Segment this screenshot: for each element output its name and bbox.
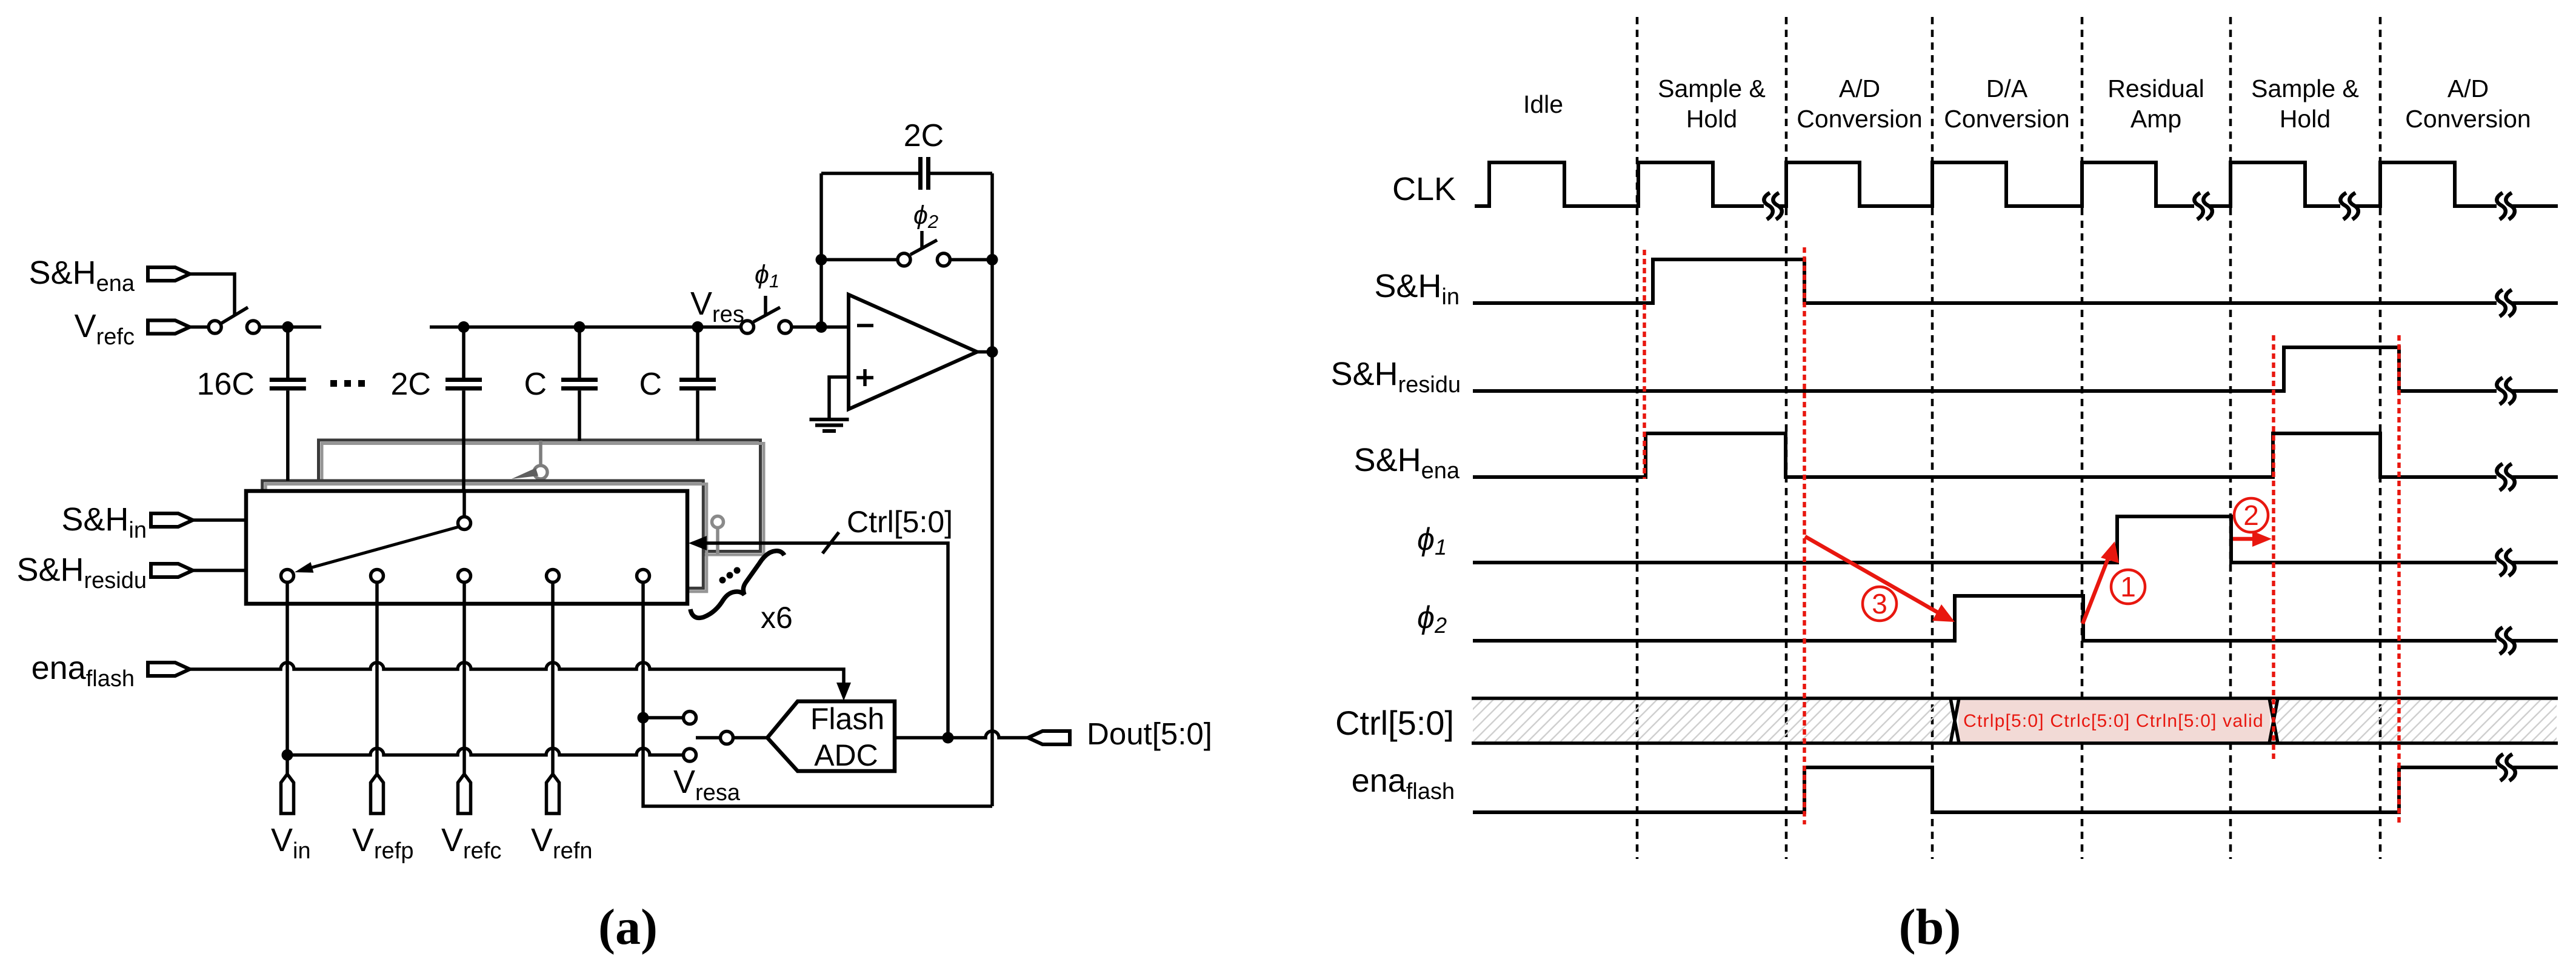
svg-text:1: 1 bbox=[2120, 571, 2136, 603]
wire: V_refc column bbox=[462, 602, 466, 774]
Ctrl X transition 2 bbox=[2269, 698, 2278, 743]
Ctrl bus hatched band bbox=[1473, 700, 1952, 741]
far replica selector pivot bbox=[512, 441, 547, 479]
red arrow 1 bbox=[2083, 541, 2119, 624]
wire: lower rail V_in to SPDT with hops bbox=[287, 749, 683, 755]
svg-text:Ctrl[5:0]: Ctrl[5:0] bbox=[847, 505, 953, 539]
bus slash Ctrl bbox=[823, 532, 839, 553]
red arrow 2 bbox=[2233, 531, 2272, 547]
x6 brace bbox=[690, 551, 784, 618]
mux replica box (far, x6 stack back) bbox=[319, 440, 764, 555]
wire: V_refn column bbox=[551, 602, 555, 774]
port V_in bbox=[281, 774, 294, 813]
wire op-amp output bbox=[977, 350, 992, 354]
wire SPDT common to Flash ADC bbox=[733, 736, 768, 740]
node: dot feedback right on phi2 row bbox=[987, 254, 998, 266]
capacitor C2 bbox=[679, 327, 716, 441]
svg-text:Conversion: Conversion bbox=[1944, 105, 2069, 133]
switch SPDT flash input bbox=[684, 712, 733, 762]
red circled 2 bbox=[2234, 498, 2268, 532]
wire: top rail segment B bbox=[430, 326, 741, 329]
svg-text:CLK: CLK bbox=[1392, 171, 1456, 207]
svg-text:2: 2 bbox=[2243, 499, 2259, 531]
node: junction dot C2 bbox=[692, 321, 704, 333]
Ctrl arrowhead into box bbox=[689, 536, 707, 550]
svg-text:Conversion: Conversion bbox=[1797, 105, 1922, 133]
red circled 1 bbox=[2111, 570, 2145, 604]
selector pivot bbox=[458, 491, 471, 530]
switch S1 (S&Hena controlled) bbox=[209, 307, 259, 333]
ena_flash arrowhead into Flash ADC bbox=[836, 683, 851, 701]
Ctrl X transition 1 bbox=[1950, 698, 1959, 743]
wire Ctrl feedback bbox=[706, 543, 948, 738]
wire: V_in column bbox=[285, 602, 289, 774]
svg-text:C: C bbox=[524, 367, 547, 402]
wire: feedback right vertical (to Vresa loop) bbox=[990, 173, 994, 806]
port V_refn bbox=[547, 774, 559, 813]
svg-text:Dout[5:0]: Dout[5:0] bbox=[1087, 716, 1212, 751]
svg-text:Conversion: Conversion bbox=[2405, 105, 2531, 133]
svg-text:2C: 2C bbox=[904, 118, 944, 153]
svg-text:A/D: A/D bbox=[2448, 75, 2489, 102]
svg-text:3: 3 bbox=[1872, 588, 1887, 620]
signal CLK waveform bbox=[1475, 162, 2558, 206]
wire op-amp plus input bbox=[829, 377, 849, 418]
signal ena_flash waveform bbox=[1473, 767, 2558, 812]
mux selector box U2 (front) bbox=[246, 491, 687, 604]
signal S&Hresidu waveform bbox=[1473, 347, 2558, 391]
capacitor 2C bbox=[445, 327, 482, 492]
CLK breaks bbox=[1764, 193, 1781, 219]
svg-text:Ctrlp[5:0] Ctrlc[5:0] Ctrln[5:: Ctrlp[5:0] Ctrlc[5:0] Ctrln[5:0] valid bbox=[1963, 711, 2264, 731]
Flash ADC block bbox=[767, 701, 895, 771]
port Dout bbox=[1028, 731, 1070, 744]
svg-text:x6: x6 bbox=[761, 601, 793, 635]
Ctrl band rails bbox=[1472, 698, 2558, 743]
svg-text:(b): (b) bbox=[1899, 899, 1961, 955]
phase boundary dashed lines bbox=[1637, 17, 2380, 859]
op-amp U1 bbox=[849, 295, 977, 409]
port S&Hin bbox=[151, 513, 193, 527]
svg-text:16C: 16C bbox=[197, 367, 255, 402]
wire S&Hresidu to box bbox=[193, 569, 246, 572]
port V_refp bbox=[371, 774, 384, 813]
svg-text:Sample &: Sample & bbox=[1658, 75, 1766, 102]
capacitor C1 bbox=[561, 327, 598, 441]
port S&Hresidu bbox=[151, 564, 193, 577]
wire S&Hin to box bbox=[193, 518, 246, 522]
svg-text:(a): (a) bbox=[598, 899, 658, 955]
svg-text:Hold: Hold bbox=[1686, 105, 1737, 133]
svg-text:Idle: Idle bbox=[1523, 90, 1563, 118]
red circled 3 bbox=[1863, 587, 1897, 621]
contact circles row inside box bbox=[281, 570, 650, 583]
selector blade with arrowhead bbox=[295, 527, 459, 573]
node: dot SPDT upper throw bbox=[638, 712, 649, 724]
wire: Vresa vertical up through hops to box bbox=[641, 602, 645, 712]
red marker line R3 bbox=[2272, 335, 2275, 763]
svg-text:Hold: Hold bbox=[2280, 105, 2331, 133]
svg-text:2C: 2C bbox=[391, 367, 431, 402]
red marker line R4 bbox=[2397, 335, 2401, 824]
mux replica box (middle of x6 stack) bbox=[262, 481, 707, 592]
signal S&Hena waveform bbox=[1473, 433, 2558, 477]
wire ena_flash with hops bbox=[190, 663, 844, 695]
switch phi1 bbox=[741, 296, 792, 333]
wire: top rail segment A bbox=[260, 326, 322, 329]
ground bbox=[810, 419, 849, 431]
signal S&Hin waveform bbox=[1473, 259, 2558, 303]
op-amp plus sign bbox=[856, 369, 873, 386]
wire: V_refp column bbox=[375, 602, 379, 774]
node: junction dot C1 bbox=[574, 321, 586, 333]
capacitor 16C bbox=[270, 327, 306, 481]
svg-text:Ctrl[5:0]: Ctrl[5:0] bbox=[1335, 704, 1454, 742]
Ctrl valid region pink bbox=[1958, 700, 2270, 741]
red arrow 3 bbox=[1805, 536, 1955, 622]
svg-text:Amp: Amp bbox=[2131, 105, 2181, 133]
wire: feedback left vertical bbox=[819, 173, 823, 327]
wire Flash output to Dout with hop bbox=[895, 731, 1028, 738]
capacitor 2C feedback bbox=[821, 157, 992, 190]
wire Vrefc to switch bbox=[190, 326, 209, 329]
node: dot feedback left on phi2 row bbox=[816, 254, 827, 266]
wire: SPDT upper throw lead bbox=[643, 716, 683, 720]
wire switch to op-amp minus bbox=[792, 326, 849, 329]
switch phi2 bbox=[821, 231, 992, 266]
svg-text:ADC: ADC bbox=[814, 738, 878, 772]
red marker line R2 bbox=[1803, 247, 1806, 824]
node: junction dot 16C bbox=[282, 321, 293, 333]
svg-text:C: C bbox=[639, 367, 662, 402]
port S&Hena bbox=[148, 267, 190, 281]
node: junction dot 2C bbox=[458, 321, 470, 333]
node: dot at feedback tap bbox=[816, 321, 827, 333]
port V_refc2 bbox=[458, 774, 471, 813]
node: output dot Vresa bbox=[987, 346, 998, 358]
svg-text:A/D: A/D bbox=[1839, 75, 1880, 102]
svg-text:Flash: Flash bbox=[810, 702, 884, 736]
signal phi2 waveform bbox=[1473, 596, 2558, 641]
node: dot Ctrl tap bbox=[943, 732, 954, 744]
node: dot V_in on lower rail bbox=[282, 749, 293, 761]
svg-text:Residual: Residual bbox=[2107, 75, 2204, 102]
svg-text:Sample &: Sample & bbox=[2251, 75, 2359, 102]
port ena_flash bbox=[148, 663, 190, 676]
wire S&Hena to switch bbox=[190, 274, 235, 316]
op-amp minus sign bbox=[857, 324, 873, 327]
contact stems to box bottom bbox=[287, 583, 643, 603]
x6 dots bbox=[719, 567, 741, 584]
svg-text:D/A: D/A bbox=[1986, 75, 2028, 102]
dots (array continues) bbox=[330, 380, 365, 387]
red marker line R1 bbox=[1643, 250, 1646, 479]
far replica contact + stem bbox=[712, 516, 724, 555]
port Vrefc bbox=[148, 321, 190, 334]
wire: Vresa loop bottom bbox=[643, 723, 992, 806]
signal phi1 waveform bbox=[1473, 516, 2558, 563]
